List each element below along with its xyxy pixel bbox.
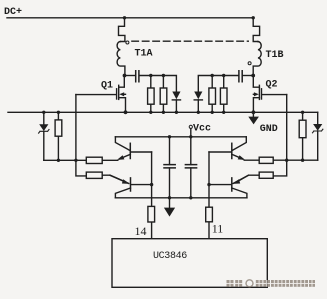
svg-text:11: 11 — [212, 221, 224, 235]
svg-text:GND: GND — [260, 124, 278, 135]
svg-text:Q2: Q2 — [266, 80, 278, 91]
svg-text:Vcc: Vcc — [193, 124, 211, 135]
svg-text:14: 14 — [135, 224, 147, 238]
svg-text:Q1: Q1 — [101, 81, 113, 92]
svg-text:T1A: T1A — [135, 49, 153, 60]
svg-text:T1B: T1B — [266, 50, 284, 61]
svg-text:UC3846: UC3846 — [153, 251, 187, 262]
svg-text:DC+: DC+ — [4, 7, 22, 18]
